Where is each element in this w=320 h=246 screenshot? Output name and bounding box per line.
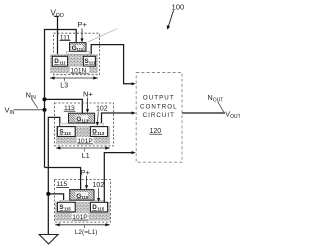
arrow N+ to gate 113 — [87, 98, 89, 110]
dimension arrow L3 — [50, 77, 98, 79]
svg-text:OUTPUT: OUTPUT — [143, 94, 175, 101]
svg-text:L3: L3 — [60, 83, 68, 90]
label 101P mid — [77, 137, 94, 144]
junction node on N_IN (VIN entry) — [42, 108, 46, 112]
leader 102 mid — [96, 111, 99, 123]
oxide strip 111 — [67, 51, 90, 54]
svg-text:P+: P+ — [78, 20, 88, 29]
source S111 — [83, 56, 95, 66]
wire VIN input — [14, 109, 45, 111]
dashed boundary 113 — [54, 103, 113, 146]
substrate 101P mid — [56, 126, 110, 144]
svg-text:113: 113 — [97, 131, 104, 136]
drain D115 — [90, 202, 107, 212]
wire VDD to drain D111 — [54, 16, 59, 56]
output wire VOUT — [182, 112, 225, 114]
junction node ground rail — [46, 192, 50, 196]
ground symbol — [39, 235, 58, 245]
svg-text:L2(=L1): L2(=L1) — [75, 229, 98, 236]
label 100 — [167, 2, 185, 29]
arrow P+ to gate 115 — [86, 176, 88, 186]
substrate 101N — [50, 54, 98, 73]
gate G115 — [70, 190, 94, 201]
svg-text:111: 111 — [89, 61, 96, 66]
gate G111 — [70, 43, 87, 52]
wire drain D113 to control circuit — [102, 113, 134, 127]
dashed boundary 115 — [54, 180, 110, 223]
gate G113 — [69, 113, 95, 123]
wire source S111 to control circuit — [91, 45, 133, 84]
svg-text:CONTROL: CONTROL — [140, 103, 178, 110]
svg-text:102: 102 — [93, 182, 105, 189]
drain D113 — [90, 127, 107, 137]
leader 102 bottom — [98, 188, 100, 199]
leader NIN — [31, 99, 38, 109]
oxide strip 115 — [60, 200, 104, 202]
output control circuit box 120 — [136, 73, 182, 163]
dimension arrow L2 — [55, 224, 110, 226]
svg-text:111: 111 — [77, 47, 84, 52]
wire input net: N_IN vertical, to gate 111 — [45, 30, 77, 168]
svg-text:115: 115 — [64, 207, 71, 212]
transistor 111 structure — [50, 20, 100, 89]
svg-text:VIN: VIN — [5, 105, 15, 116]
svg-text:115: 115 — [81, 195, 88, 200]
wire ground rail from S113 — [48, 117, 60, 234]
transistor 115 structure — [54, 168, 110, 236]
transistor 113 structure — [54, 90, 113, 160]
dashed boundary 111 — [53, 33, 99, 74]
leader NOUT — [218, 102, 224, 112]
wire drain D115 to control circuit — [104, 153, 133, 203]
junction node on N_IN (gate 113 branch) — [42, 97, 46, 101]
svg-text:111: 111 — [59, 61, 66, 66]
dimension arrow L1 — [56, 147, 110, 149]
oxide strip 113 — [60, 123, 104, 126]
svg-text:115: 115 — [97, 207, 104, 212]
svg-text:L1: L1 — [82, 153, 90, 160]
label 101P bottom — [72, 213, 89, 220]
arrow P+ to gate 111 — [81, 28, 83, 39]
svg-text:CIRCUIT: CIRCUIT — [143, 112, 175, 119]
faint leader line near structure 111 — [89, 29, 118, 42]
svg-text:113: 113 — [64, 131, 71, 136]
svg-text:N+: N+ — [83, 90, 93, 99]
svg-text:P+: P+ — [81, 168, 91, 177]
svg-text:113: 113 — [81, 118, 88, 123]
drain D111 — [52, 56, 67, 66]
wire N_IN to gate 115 — [45, 168, 81, 190]
source S115 — [57, 202, 75, 212]
wire S115 to ground rail — [48, 194, 63, 202]
svg-text:NIN: NIN — [26, 90, 37, 101]
svg-text:NOUT: NOUT — [208, 93, 224, 104]
source S113 — [57, 127, 75, 137]
label 101N — [70, 67, 90, 73]
svg-text:102: 102 — [96, 105, 108, 112]
svg-text:VOUT: VOUT — [225, 110, 240, 121]
wire N_IN to gate 113 — [45, 99, 83, 113]
substrate 101P bottom — [55, 202, 110, 221]
svg-text:100: 100 — [172, 2, 185, 11]
